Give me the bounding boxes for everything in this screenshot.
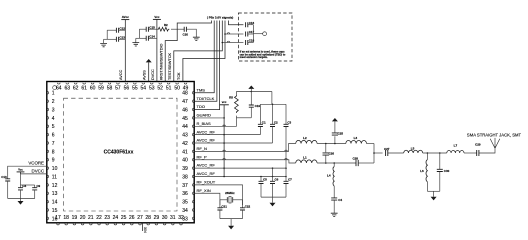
svg-text:RF_P: RF_P [197, 154, 208, 159]
svg-text:36: 36 [182, 191, 188, 197]
power symbol AVcc (top-left rail) [121, 15, 129, 20]
wire to C18 (hop) [222, 41, 244, 43]
power symbol Vcc (DVCC rail) [17, 168, 25, 174]
IC U1 left pins 1-16 (arcs + numbers) [47, 91, 57, 223]
svg-text:55: 55 [132, 86, 138, 92]
wire R5 bottom to R_BIAS junction [236, 116, 251, 118]
svg-text:C12: C12 [119, 26, 125, 30]
svg-text:38: 38 [182, 174, 188, 180]
svg-text:61: 61 [81, 86, 87, 92]
svg-text:C22: C22 [245, 204, 251, 208]
svg-text:AVCC_RF: AVCC_RF [197, 129, 216, 134]
svg-text:TEST/SBWTCK: TEST/SBWTCK [168, 53, 172, 80]
wire TDI bus stub [194, 21, 217, 102]
svg-text:64: 64 [56, 86, 62, 92]
svg-text:6: 6 [52, 133, 55, 139]
capacitor C26 [323, 144, 335, 164]
inductor L2 [296, 136, 317, 144]
wire TMS bus stub [194, 21, 214, 93]
capacitor C7 [284, 177, 293, 198]
svg-text:GUARD: GUARD [197, 113, 212, 118]
svg-text:AVSS: AVSS [143, 70, 147, 80]
svg-text:14: 14 [52, 200, 58, 206]
wire RF_XOUT (pin 37) [194, 185, 242, 205]
wire L5 to L7 with shunt taps [423, 152, 447, 154]
svg-text:15: 15 [52, 208, 58, 214]
svg-text:TDI/TCLK: TDI/TCLK [197, 96, 215, 101]
ground (AVcc caps) [100, 43, 107, 46]
power symbol Vcc (top rail) [153, 15, 161, 20]
wire crystal branches [220, 200, 243, 208]
svg-text:30: 30 [162, 215, 168, 221]
svg-text:L7: L7 [454, 143, 458, 147]
svg-text:42: 42 [182, 141, 188, 147]
dashed option box [238, 13, 292, 61]
capacitor C19 [249, 92, 261, 118]
svg-text:L1: L1 [303, 156, 307, 160]
wire C20 to ground [186, 29, 196, 37]
svg-text:C13: C13 [119, 36, 125, 40]
capacitor C8 [18, 184, 26, 199]
svg-text:62: 62 [73, 86, 79, 92]
svg-text:41: 41 [182, 149, 188, 155]
svg-text:RF_XOUT: RF_XOUT [197, 179, 216, 184]
power symbol (C25 top triangle) [332, 118, 338, 121]
svg-text:C21: C21 [221, 204, 227, 208]
svg-text:AVCC_RF: AVCC_RF [197, 138, 216, 143]
ground (Vcc caps) [132, 43, 139, 46]
IC U1 top pins 64-49 (arcs + numbers) [56, 83, 189, 92]
wire RF_XIN (pin 36) [194, 193, 220, 205]
capacitor C12 [116, 26, 125, 32]
svg-text:C3: C3 [287, 121, 291, 125]
capacitor C3 [284, 104, 292, 176]
wire top path L2-L3 [317, 143, 346, 145]
power symbol AVCC_RF (triangle) [248, 86, 254, 92]
net DVCC riser (pin 52) [156, 19, 158, 81]
svg-text:C10: C10 [1, 175, 7, 179]
wire AVcc cap leads [104, 30, 126, 43]
svg-text:39: 39 [182, 166, 188, 172]
wire AVCC_RF (pin 39) [194, 167, 287, 169]
svg-text:44: 44 [182, 124, 188, 130]
svg-text:37: 37 [182, 183, 188, 189]
svg-text:3: 3 [52, 107, 55, 113]
svg-text:L2: L2 [303, 136, 307, 140]
capacitor C28 [352, 156, 374, 166]
svg-text:43: 43 [182, 133, 188, 139]
svg-text:5: 5 [52, 124, 55, 130]
net AVCC riser (pin 56) [124, 20, 126, 82]
inductor L4 [327, 163, 334, 198]
IC U1 pin-1 indicator [53, 86, 57, 90]
capacitor C18 [246, 39, 255, 45]
wire cap bus [260, 92, 286, 106]
wire AVCC_RF (pin 43) [194, 134, 260, 136]
capacitor C13 [116, 36, 125, 42]
inductor L6 [420, 153, 427, 191]
svg-text:C7: C7 [288, 178, 292, 182]
svg-text:#RST/NMI/SBWTDIO: #RST/NMI/SBWTDIO [159, 43, 163, 80]
svg-text:L3: L3 [354, 136, 358, 140]
svg-text:meet emission targets.: meet emission targets. [240, 55, 268, 59]
wire RF_N (pin 41) with hops [194, 144, 296, 152]
svg-text:RF_XIN: RF_XIN [197, 188, 211, 193]
IC U1 CC430F61xx body [47, 82, 194, 223]
svg-text:54: 54 [141, 86, 147, 92]
wire to C17 (hop) [224, 33, 243, 35]
svg-text:RF_N: RF_N [197, 146, 208, 151]
svg-text:32: 32 [178, 215, 184, 221]
svg-text:57: 57 [115, 86, 121, 92]
svg-text:L5: L5 [411, 147, 415, 151]
ground (C4) [331, 213, 338, 216]
svg-text:2: 2 [52, 99, 55, 105]
capacitor C29 [475, 142, 481, 156]
wire R_BIAS (pin 44) with hop [194, 118, 236, 126]
svg-text:45: 45 [182, 116, 188, 122]
svg-text:TMS: TMS [197, 87, 206, 92]
svg-text:47: 47 [182, 99, 188, 105]
svg-text:C16: C16 [249, 21, 255, 25]
svg-text:26: 26 [129, 215, 135, 221]
ground (C20) [193, 37, 200, 40]
inductor L5 [404, 147, 423, 153]
wire vcc feed rail down to AVCC_RF pins [223, 105, 225, 177]
wire XIN stub (pin 27) [143, 223, 147, 233]
svg-text:DVCC: DVCC [151, 69, 155, 80]
svg-text:22: 22 [96, 215, 102, 221]
svg-text:AVCC_RF: AVCC_RF [197, 163, 216, 168]
wire R2 junction to C20 and bus stub [171, 21, 212, 30]
capacitor C2 [270, 104, 278, 143]
svg-text:51: 51 [166, 86, 172, 92]
svg-text:vcc: vcc [222, 100, 227, 104]
resistor R2 [157, 23, 169, 31]
capacitor C16 [246, 21, 255, 27]
svg-text:8: 8 [52, 149, 55, 155]
svg-text:40: 40 [182, 158, 188, 164]
svg-text:7: 7 [52, 141, 55, 147]
svg-text:C15: C15 [149, 25, 155, 29]
capacitor C6 [270, 177, 279, 198]
svg-text:C26: C26 [329, 151, 335, 155]
wire L7 to C29 [464, 152, 477, 154]
svg-text:C5: C5 [263, 178, 267, 182]
wire bottom path L1-C28 [317, 162, 356, 164]
ground (lower caps) [270, 203, 276, 207]
svg-text:R5: R5 [229, 96, 233, 100]
net #RST riser (pin 51) [165, 29, 177, 81]
svg-text:C14: C14 [149, 35, 155, 39]
svg-text:31: 31 [170, 215, 176, 221]
net TCK riser (pin 49) [183, 21, 225, 82]
svg-text:C25: C25 [338, 132, 344, 136]
svg-text:C19: C19 [255, 104, 261, 108]
svg-text:SMA STRAIGHT JACK, SMT: SMA STRAIGHT JACK, SMT [467, 132, 522, 137]
svg-text:58: 58 [107, 86, 113, 92]
inductor L7 [447, 143, 464, 153]
connector J? (cap option tap) [263, 32, 267, 36]
capacitor C14 [146, 35, 155, 41]
capacitor C25 [332, 122, 344, 144]
capacitor C20 [183, 27, 189, 37]
svg-text:11: 11 [52, 174, 57, 180]
net TEST riser (pin 50) [174, 21, 223, 82]
svg-text:9: 9 [52, 158, 55, 164]
svg-text:TDO: TDO [197, 104, 205, 109]
svg-text:25: 25 [121, 215, 127, 221]
svg-text:L4: L4 [327, 174, 331, 178]
ground (crystal) [228, 226, 234, 230]
IC U1 bottom pins 17-32 (arcs + numbers) [55, 215, 184, 225]
svg-text:R_BIAS: R_BIAS [197, 121, 212, 126]
svg-text:C30: C30 [444, 169, 450, 173]
svg-text:48: 48 [182, 91, 188, 97]
svg-text:R2: R2 [164, 23, 168, 27]
svg-text:4: 4 [52, 116, 55, 122]
svg-text:TCK: TCK [177, 72, 181, 80]
svg-text:13: 13 [52, 191, 58, 197]
svg-text:18: 18 [63, 215, 69, 221]
antenna J1 SMA jack [467, 132, 522, 148]
svg-text:C29: C29 [475, 142, 481, 146]
wire GUARD (pin 45) [194, 117, 225, 119]
net AVSS riser (pin 53) with power triangle [146, 59, 152, 82]
capacitor C30 [437, 153, 450, 191]
svg-text:C8: C8 [22, 184, 26, 188]
svg-text:21: 21 [88, 215, 94, 221]
inductor L3 [346, 136, 367, 144]
capacitor C15 [146, 25, 155, 31]
svg-text:63: 63 [64, 86, 70, 92]
wire TDO bus stub [194, 21, 219, 110]
capacitor C10 (VCORE) [1, 175, 10, 199]
wire AVCC_RF (pin 42) [194, 142, 272, 144]
svg-text:29: 29 [154, 215, 160, 221]
svg-text:23: 23 [104, 215, 110, 221]
wire C27 to L5 [388, 152, 404, 154]
svg-text:1: 1 [52, 91, 55, 97]
svg-text:34: 34 [182, 208, 188, 214]
svg-text:C4: C4 [338, 198, 342, 202]
wire Vcc cap leads [136, 29, 157, 42]
svg-text:CC430F61xx: CC430F61xx [104, 149, 134, 155]
svg-text:( P5x 3.6V signals): ( P5x 3.6V signals) [207, 15, 233, 19]
inductor L1 [296, 156, 317, 163]
wire C29 to antenna [479, 148, 495, 153]
wire RF_P (pin 40) with hops [194, 158, 296, 163]
svg-text:19: 19 [72, 215, 78, 221]
capacitor C9 [21, 184, 41, 199]
wire L6/C30 common [427, 191, 439, 197]
wire VCORE (pin 10) [8, 161, 47, 179]
capacitor C22 [240, 204, 251, 218]
svg-text:VCORE: VCORE [28, 161, 44, 166]
svg-text:20: 20 [80, 215, 86, 221]
svg-text:C28: C28 [352, 156, 358, 160]
resistor R5 [229, 95, 238, 113]
svg-text:AVCC: AVCC [119, 69, 123, 80]
svg-text:17: 17 [55, 215, 61, 221]
svg-text:AVCC_RF: AVCC_RF [197, 171, 216, 176]
wire DVCC (pin 11) [21, 168, 47, 185]
svg-text:53: 53 [149, 86, 155, 92]
svg-text:52: 52 [157, 86, 163, 92]
svg-text:C27: C27 [384, 147, 390, 151]
ground (L6/C30) [431, 197, 437, 201]
svg-text:50: 50 [174, 86, 180, 92]
svg-text:C6: C6 [275, 178, 279, 182]
svg-text:59: 59 [98, 86, 104, 92]
svg-text:10: 10 [52, 166, 58, 172]
capacitor C27 [384, 147, 390, 156]
capacitor C5 [259, 177, 268, 198]
svg-text:C1: C1 [262, 121, 266, 125]
svg-text:DVCC: DVCC [32, 168, 44, 173]
wire AVCC_RF (pin 38) [194, 168, 287, 177]
wire crystal caps common [220, 219, 243, 226]
svg-text:AVcc: AVcc [122, 15, 129, 19]
wire L3/C28 join [367, 144, 383, 164]
svg-text:Vcc: Vcc [18, 168, 23, 172]
svg-text:56: 56 [124, 86, 130, 92]
svg-text:Vcc: Vcc [154, 15, 160, 19]
svg-text:24: 24 [113, 215, 119, 221]
crystal Y1 26MHz [225, 191, 235, 203]
wire lower caps common [261, 197, 286, 203]
svg-text:60: 60 [90, 86, 96, 92]
capacitor C1 [258, 104, 266, 134]
svg-text:35: 35 [182, 200, 188, 206]
wire left caps common [8, 199, 35, 202]
svg-text:46: 46 [182, 107, 188, 113]
power symbol vcc (AVCC_RF feed) [219, 100, 228, 105]
note text in dashed box [240, 50, 286, 60]
svg-text:26MHz: 26MHz [225, 191, 235, 195]
svg-text:C20: C20 [183, 33, 189, 37]
ground (left caps) [18, 201, 24, 205]
svg-text:12: 12 [52, 183, 58, 189]
wire caps common right rail [248, 25, 263, 43]
svg-text:28: 28 [145, 215, 151, 221]
wire P-signal stub to C16 [229, 21, 244, 25]
IC U1 right pins 48-33 (arcs + numbers) [182, 91, 194, 223]
svg-text:C2: C2 [274, 121, 278, 125]
svg-text:XIN: XIN [143, 227, 147, 233]
wire AVCC_RF top rail [236, 91, 272, 95]
capacitor C4 [331, 198, 342, 213]
svg-text:27: 27 [137, 215, 143, 221]
capacitor C21 [217, 204, 227, 218]
capacitor C17 [246, 30, 255, 36]
svg-text:L6: L6 [420, 169, 424, 173]
svg-text:C9: C9 [36, 184, 40, 188]
